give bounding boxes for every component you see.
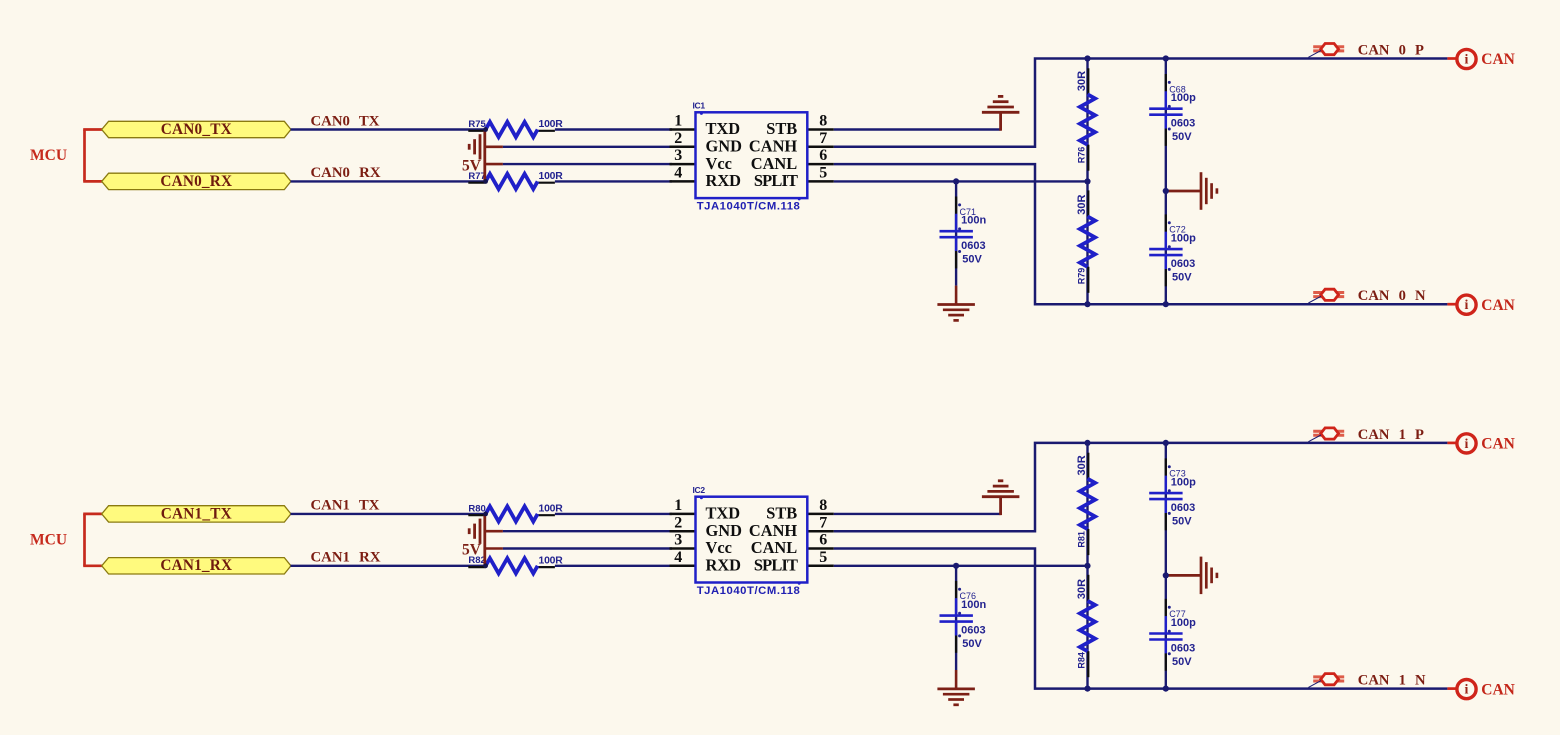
svg-text:7: 7 <box>819 514 827 531</box>
svg-text:TXD: TXD <box>706 504 741 523</box>
svg-text:5: 5 <box>819 165 827 182</box>
svg-text:CAN 1 N: CAN 1 N <box>1358 673 1426 689</box>
svg-text:MCU: MCU <box>30 147 67 164</box>
svg-text:100R: 100R <box>539 504 564 515</box>
svg-text:100R: 100R <box>539 119 564 130</box>
svg-text:7: 7 <box>819 130 827 147</box>
svg-text:30R: 30R <box>1076 71 1088 91</box>
svg-text:i: i <box>1465 683 1469 698</box>
svg-text:CAN: CAN <box>1481 297 1515 314</box>
svg-text:100R: 100R <box>539 171 564 182</box>
svg-text:100R: 100R <box>539 556 564 567</box>
svg-text:6: 6 <box>819 532 827 549</box>
svg-text:CAN 0 P: CAN 0 P <box>1358 43 1424 59</box>
svg-text:STB: STB <box>766 119 797 138</box>
svg-text:GND: GND <box>706 137 743 156</box>
svg-text:100p: 100p <box>1171 617 1196 629</box>
svg-text:30R: 30R <box>1076 455 1088 475</box>
svg-text:0603: 0603 <box>961 625 985 637</box>
svg-text:SPLIT: SPLIT <box>754 556 798 575</box>
svg-text:30R: 30R <box>1076 579 1088 599</box>
svg-text:TJA1040T/CM.118: TJA1040T/CM.118 <box>697 201 801 213</box>
svg-text:TXD: TXD <box>706 119 741 138</box>
svg-text:CAN1_RX: CAN1_RX <box>160 557 232 574</box>
svg-text:50V: 50V <box>1172 516 1192 528</box>
svg-text:RXD: RXD <box>706 556 742 575</box>
svg-text:CAN1 RX: CAN1 RX <box>311 550 381 566</box>
svg-text:CANH: CANH <box>749 137 798 156</box>
svg-text:0603: 0603 <box>1171 502 1195 514</box>
svg-text:i: i <box>1465 53 1469 68</box>
svg-text:1: 1 <box>674 113 682 130</box>
svg-text:2: 2 <box>674 514 682 531</box>
svg-text:Vcc: Vcc <box>706 154 732 173</box>
svg-text:30R: 30R <box>1076 194 1088 214</box>
svg-text:8: 8 <box>819 497 827 514</box>
svg-text:50V: 50V <box>1172 656 1192 668</box>
svg-text:CAN 0 N: CAN 0 N <box>1358 288 1426 304</box>
svg-text:3: 3 <box>674 532 682 549</box>
svg-text:R76: R76 <box>1077 147 1087 164</box>
svg-text:MCU: MCU <box>30 531 67 548</box>
svg-text:CAN 1 P: CAN 1 P <box>1358 427 1424 443</box>
svg-text:CAN0_RX: CAN0_RX <box>160 173 232 190</box>
svg-text:CAN1 TX: CAN1 TX <box>311 498 380 514</box>
svg-text:Vcc: Vcc <box>706 538 732 557</box>
svg-text:CANL: CANL <box>751 154 798 173</box>
svg-text:CANH: CANH <box>749 521 798 540</box>
svg-text:R84: R84 <box>1077 652 1087 669</box>
svg-text:4: 4 <box>674 549 682 566</box>
svg-text:50V: 50V <box>962 638 982 650</box>
svg-text:0603: 0603 <box>961 240 985 252</box>
svg-text:5V: 5V <box>462 157 482 174</box>
svg-text:CAN1_TX: CAN1_TX <box>161 505 232 522</box>
svg-text:100p: 100p <box>1171 477 1196 489</box>
svg-text:i: i <box>1465 298 1469 313</box>
svg-text:100p: 100p <box>1171 92 1196 104</box>
svg-text:CAN: CAN <box>1481 681 1515 698</box>
svg-text:4: 4 <box>674 165 682 182</box>
svg-text:5V: 5V <box>462 542 482 559</box>
svg-text:0603: 0603 <box>1171 258 1195 270</box>
svg-text:3: 3 <box>674 147 682 164</box>
svg-text:CAN0 TX: CAN0 TX <box>311 113 380 129</box>
svg-text:50V: 50V <box>1172 131 1192 143</box>
svg-text:RXD: RXD <box>706 171 742 190</box>
svg-text:GND: GND <box>706 521 743 540</box>
svg-text:CAN: CAN <box>1481 436 1515 453</box>
svg-text:8: 8 <box>819 113 827 130</box>
svg-text:100p: 100p <box>1171 233 1196 245</box>
svg-text:CAN: CAN <box>1481 51 1515 68</box>
svg-text:STB: STB <box>766 504 797 523</box>
svg-text:2: 2 <box>674 130 682 147</box>
svg-text:R79: R79 <box>1077 268 1087 285</box>
svg-text:IC2: IC2 <box>693 485 706 495</box>
svg-text:100n: 100n <box>961 215 986 227</box>
svg-text:0603: 0603 <box>1171 118 1195 130</box>
svg-text:TJA1040T/CM.118: TJA1040T/CM.118 <box>697 585 801 597</box>
svg-text:IC1: IC1 <box>693 101 706 111</box>
svg-text:0603: 0603 <box>1171 643 1195 655</box>
svg-text:100n: 100n <box>961 599 986 611</box>
svg-text:50V: 50V <box>962 254 982 266</box>
svg-text:CANL: CANL <box>751 538 798 557</box>
svg-text:6: 6 <box>819 147 827 164</box>
svg-text:R81: R81 <box>1077 531 1087 548</box>
svg-text:1: 1 <box>674 497 682 514</box>
svg-text:SPLIT: SPLIT <box>754 171 798 190</box>
svg-text:R80: R80 <box>468 503 485 514</box>
svg-text:CAN0_TX: CAN0_TX <box>161 121 232 138</box>
svg-text:50V: 50V <box>1172 272 1192 284</box>
svg-text:5: 5 <box>819 549 827 566</box>
svg-text:CAN0 RX: CAN0 RX <box>311 165 381 181</box>
svg-text:i: i <box>1465 437 1469 452</box>
